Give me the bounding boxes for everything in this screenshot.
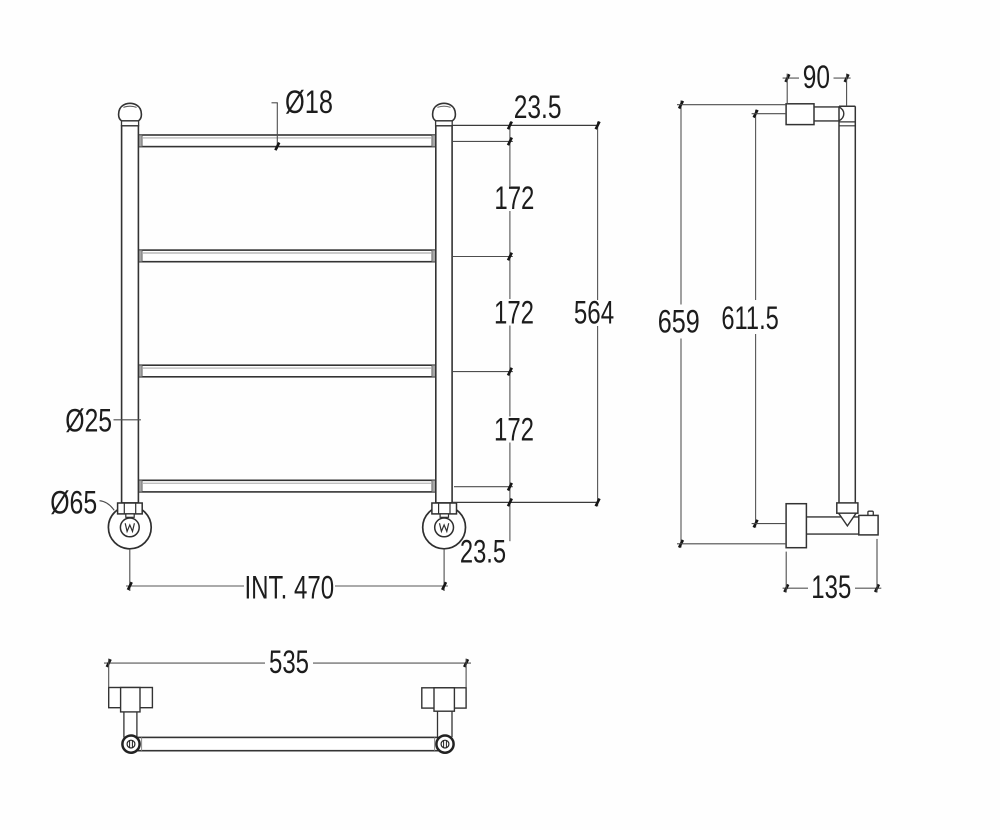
extension lines 135 [785,552,787,593]
side bottom arm tube [806,516,858,518]
right post collar [436,121,453,126]
right post (Ø25) [436,126,452,503]
svg-text:90: 90 [803,59,830,95]
rail3 right connector [432,365,436,377]
left post cap knob [119,103,142,121]
bottom left bracket plate [109,688,153,708]
extension line rail4 centre [454,486,513,488]
extension line below left mount [129,549,131,591]
svg-text:INT. 470: INT. 470 [245,570,335,606]
rail 2 [138,250,435,262]
chain dimension line 23.5/172/172/172/23.5 [509,122,511,186]
dimension line 611.5 [755,110,757,300]
dimension line 135 [783,587,808,589]
extension lines 659 [677,104,786,106]
extension line rail2 centre [452,256,513,258]
side tube bend curve [839,107,844,121]
rail1 right connector [432,135,436,147]
svg-text:535: 535 [269,644,309,680]
left mount bracket [118,503,143,514]
left wall mount circle Ø65 [108,506,151,549]
bottom left end cap circle [122,736,139,753]
svg-text:172: 172 [494,412,534,448]
rail2 left connector [138,250,142,262]
bottom right end cap circle [436,736,453,753]
svg-text:23.5: 23.5 [460,534,506,570]
svg-text:Ø65: Ø65 [50,485,97,521]
side valve cone [839,513,857,526]
dimension line 535 [104,662,265,664]
extension lines 90 [786,74,788,104]
svg-text:172: 172 [494,294,534,330]
bottom right bracket plate [422,688,466,708]
svg-text:611.5: 611.5 [721,300,778,336]
svg-text:659: 659 [658,303,700,339]
svg-text:Ø25: Ø25 [65,402,112,438]
svg-text:23.5: 23.5 [514,89,562,125]
rail 3 [138,365,435,377]
extension line post top right [452,124,598,126]
svg-text:172: 172 [494,180,534,216]
right mount inner circle with W [435,518,454,537]
svg-text:Ø18: Ø18 [285,84,333,120]
extension line post bottom right [452,501,598,503]
dim leader Ø18 [276,103,278,149]
rail 4 (bottom) [138,480,435,492]
dimension line 564 [597,122,599,301]
left mount inner circle with W [120,518,139,537]
side post (vertical bar) [838,106,840,503]
svg-text:564: 564 [574,295,614,331]
bottom right stem [437,711,439,737]
rail2 right connector [432,250,436,262]
right wall mount circle [423,506,466,549]
rail3 left connector [138,365,142,377]
extension lines 535 [108,659,110,688]
rail 1 (top, Ø18 tube) [138,135,435,147]
side block bump [868,511,873,515]
side top arm tube [814,106,839,108]
dimension line INT. 470 [126,585,244,587]
side wall plate top [786,104,814,125]
side bottom wall plate [786,504,806,548]
dimension line 90 [783,77,799,79]
side post collar [839,121,855,123]
bottom bar joint marks [141,737,143,750]
extension line rail3 centre [452,371,513,373]
side right block [859,515,878,535]
bottom bar tube [134,737,442,750]
right post cap knob [433,103,456,121]
left post collar [122,121,139,126]
bottom left stem [123,712,125,738]
rail1 left connector [138,135,142,147]
rail4 right connector [432,480,436,492]
left post (Ø25) [122,126,139,503]
dimension line 659 [680,101,682,305]
extension line rail1 centre [452,140,513,142]
side bottom collar [837,503,858,513]
rail4 left connector [138,480,142,492]
extension lines 611.5 [752,113,787,115]
extension line below right mount [443,549,445,591]
right mount bracket [432,503,457,514]
svg-text:135: 135 [811,569,851,605]
